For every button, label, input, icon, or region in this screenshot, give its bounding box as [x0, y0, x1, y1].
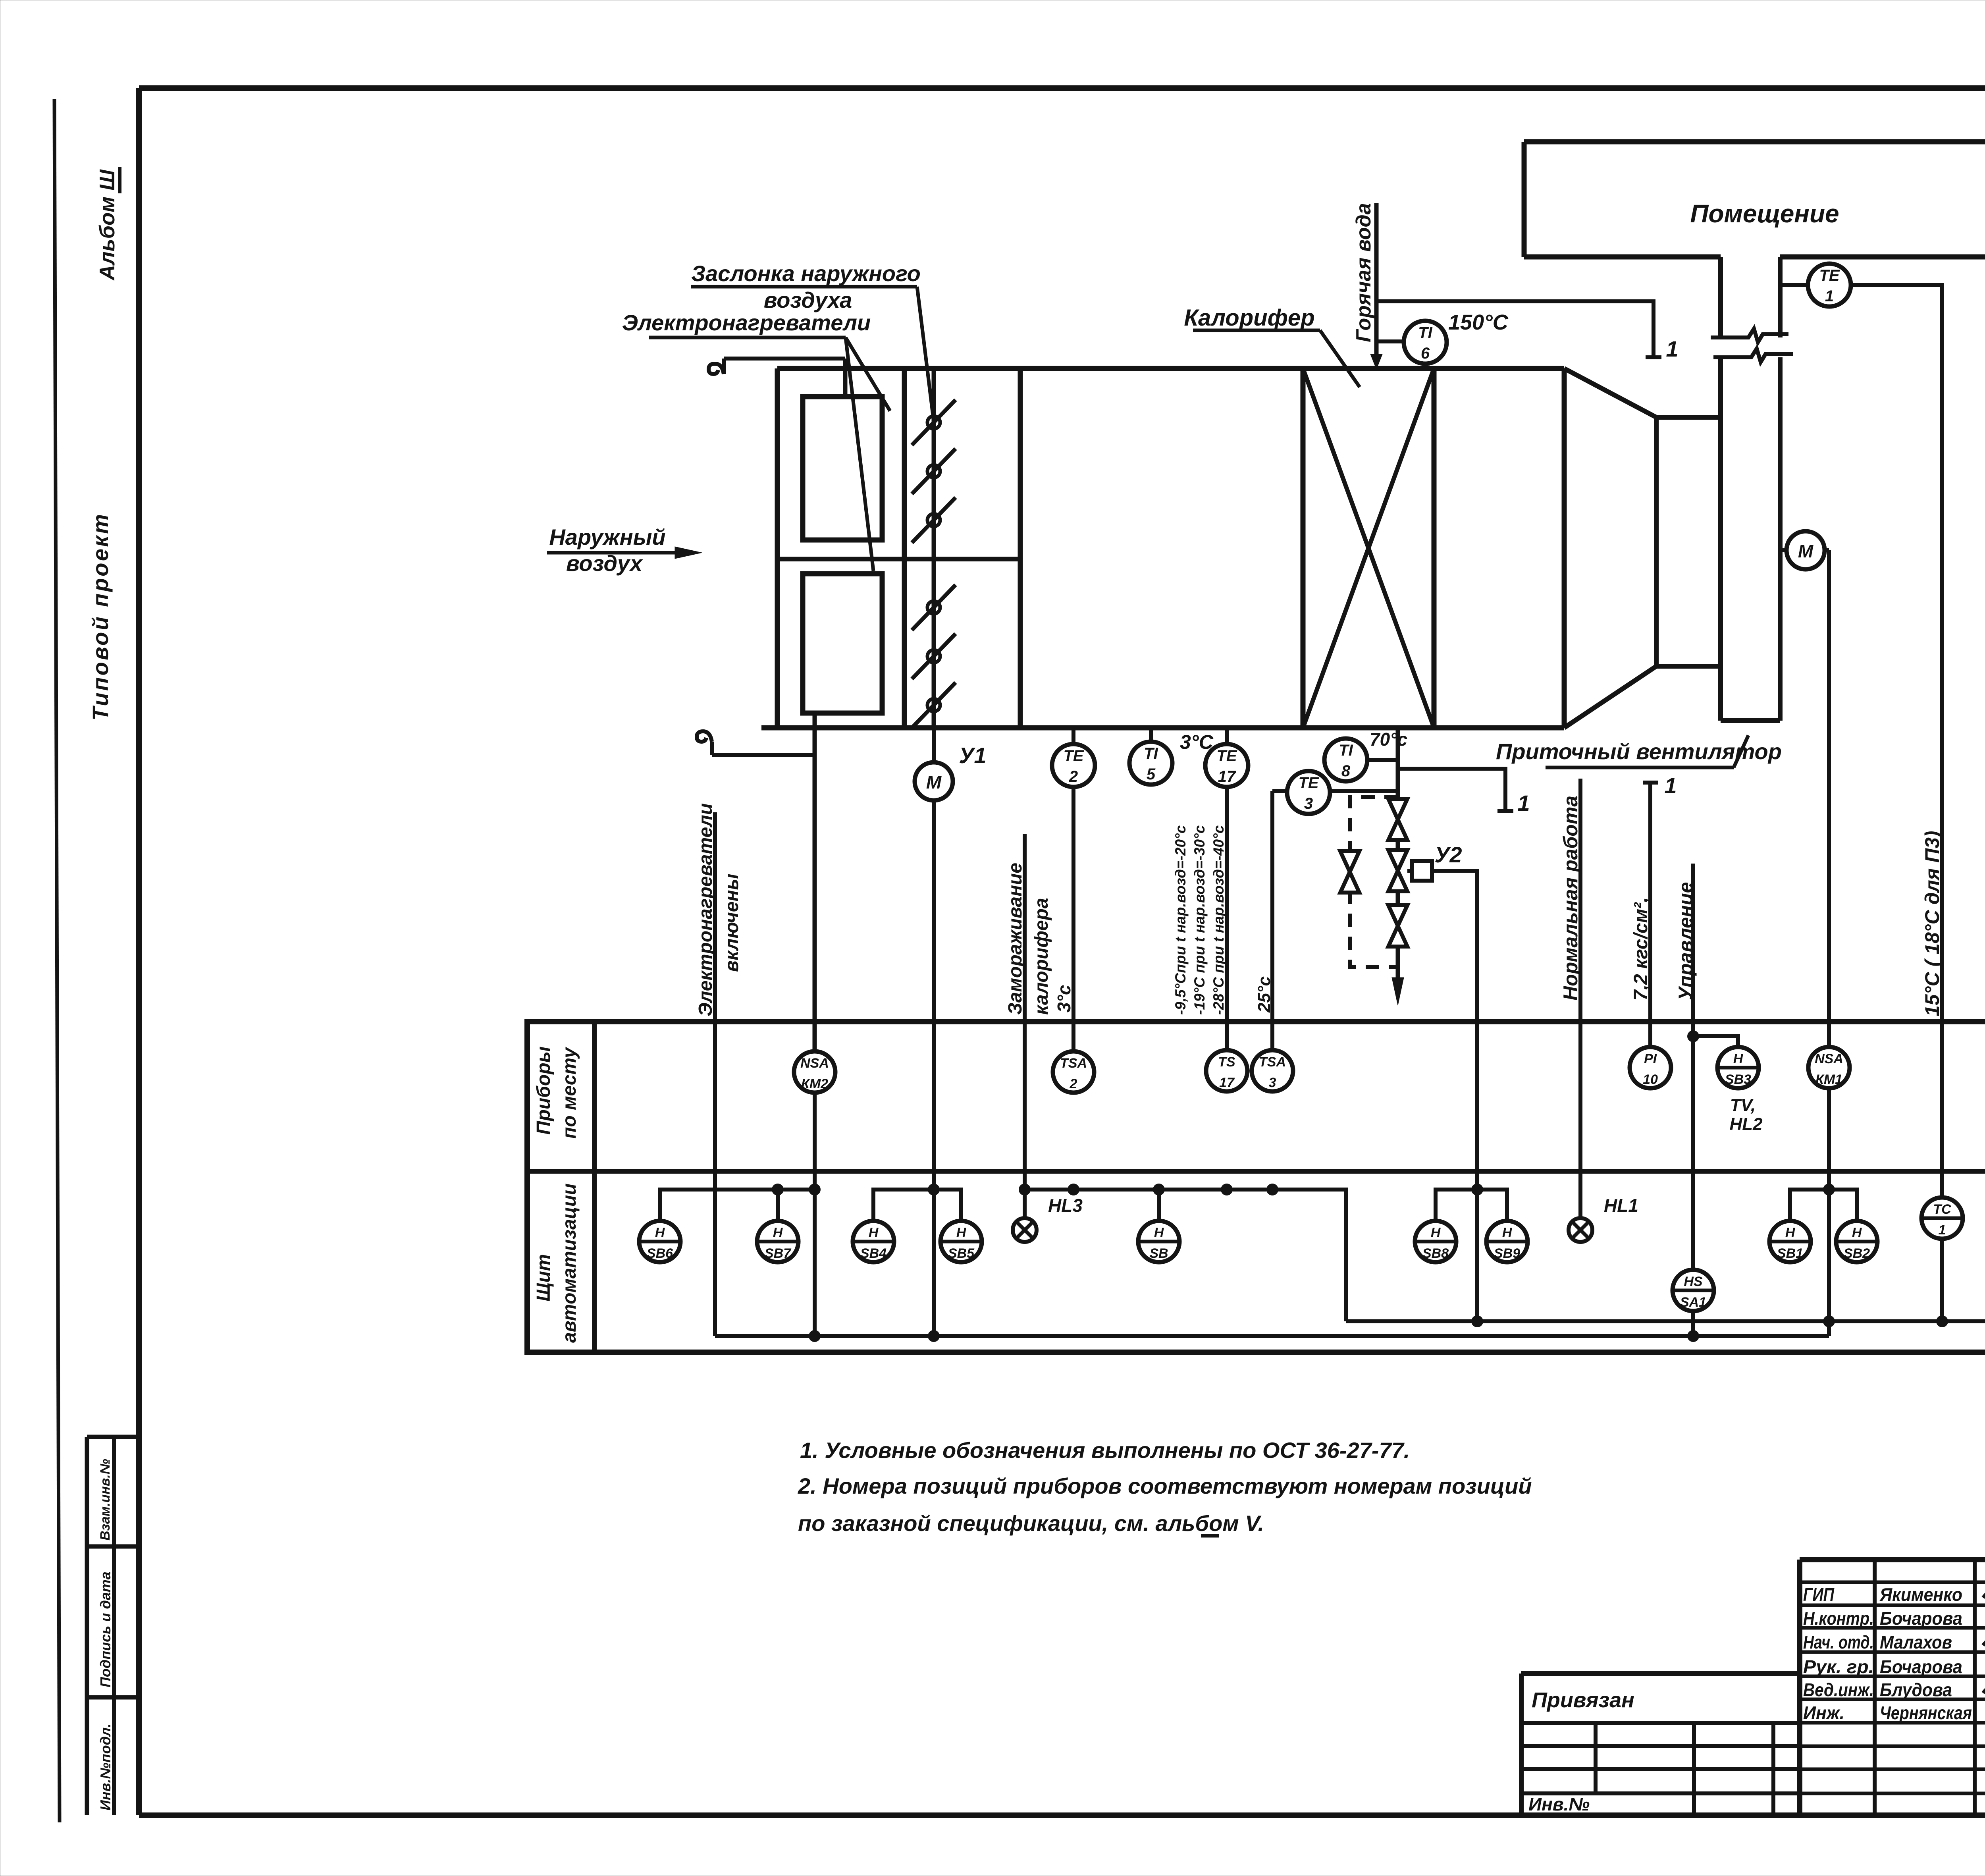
svg-text:-28°С при t нар.возд=-40°с: -28°С при t нар.возд=-40°с: [1210, 825, 1227, 1015]
instrument PI10: [1630, 1047, 1671, 1088]
bypass valve: [1340, 851, 1359, 893]
svg-text:Н: Н: [1154, 1225, 1164, 1240]
table row divider: [527, 1169, 1985, 1174]
damper blades: [912, 400, 956, 728]
margin stamp boxes: [87, 1437, 139, 1815]
instrument TI5: [1129, 728, 1172, 785]
instrument NSA KM2: [794, 1051, 835, 1093]
svg-text:У2: У2: [1434, 842, 1462, 867]
label Электронагреватели включены: [695, 803, 742, 1016]
labels temperature settings TE17: [1172, 825, 1227, 1015]
signal line control: [1691, 864, 1695, 1336]
wire TE3 left: [1272, 789, 1287, 793]
svg-text:3: 3: [1269, 1075, 1276, 1090]
fan outlet face: [1654, 417, 1659, 666]
svg-text:SВ2: SВ2: [1844, 1246, 1870, 1261]
label Замораживание калорифера: [1005, 863, 1052, 1015]
room label: [1690, 199, 1839, 228]
svg-text:включены: включены: [721, 873, 742, 972]
svg-text:Приборы: Приборы: [533, 1046, 554, 1135]
wire duct to fan motor M: [1780, 548, 1787, 552]
duct break symbol lower: [1713, 349, 1793, 362]
signal line damper motor down: [932, 800, 936, 1336]
svg-text:SВ9: SВ9: [1494, 1246, 1520, 1261]
svg-text:Наружный: Наружный: [549, 524, 665, 549]
margin label Типовой проект: [88, 514, 113, 721]
label 25C: [1255, 976, 1274, 1013]
label У1: [959, 743, 986, 768]
svg-text:Ш: Ш: [95, 169, 119, 191]
svg-text:1. Условные обозначения выпо: 1. Условные обозначения выполнены по ОСТ…: [800, 1438, 1410, 1463]
svg-text:Н: Н: [1431, 1225, 1441, 1240]
svg-text:У1: У1: [959, 743, 986, 768]
fan cone top: [1564, 368, 1656, 417]
svg-text:Н: Н: [1852, 1225, 1862, 1240]
wire SB4-SB5: [873, 1184, 961, 1221]
button H SВ4: [853, 1221, 894, 1262]
svg-text:Н: Н: [1502, 1225, 1513, 1240]
heater section right wall: [1432, 368, 1437, 728]
signal line TE1 lower part: [1940, 1239, 1944, 1321]
pipe outlet arrow: [1392, 978, 1404, 1005]
instrument NSA KM1: [1808, 1047, 1850, 1088]
title block signature grid: [1800, 1560, 1985, 1815]
switch HS SA1: [1673, 1270, 1714, 1311]
supply duct right wall: [1778, 257, 1783, 721]
signal branch to SB3: [1687, 1030, 1738, 1047]
svg-text:ТSА: ТSА: [1259, 1055, 1286, 1070]
svg-text:SВ6: SВ6: [647, 1246, 673, 1261]
button H SВ5: [940, 1221, 982, 1262]
damper section mid divider: [777, 557, 1020, 561]
svg-text:TV,: TV,: [1730, 1095, 1756, 1115]
button H SВ9: [1486, 1221, 1528, 1262]
lamp HL1: [1569, 1195, 1638, 1242]
margin label Альбом III: [95, 167, 120, 281]
svg-text:Н: Н: [1733, 1051, 1744, 1066]
signal line return to note1: [1398, 769, 1513, 811]
svg-text:по месту: по месту: [559, 1047, 580, 1139]
svg-text:М: М: [926, 772, 942, 792]
signal line TE1 to TC1: [1850, 285, 1942, 1197]
svg-text:Н: Н: [655, 1225, 665, 1240]
svg-text:ТЕ: ТЕ: [1216, 747, 1237, 765]
svg-text:Электронагреватели: Электронагреватели: [695, 803, 716, 1016]
flexible connector bracket top left: [709, 359, 845, 374]
lamp HL3: [1013, 1195, 1083, 1242]
svg-text:Н.контр.: Н.контр.: [1803, 1608, 1874, 1629]
table label Щит автоматизации: [533, 1184, 580, 1343]
label У2: [1434, 842, 1462, 867]
controller TC1: [1921, 1197, 1963, 1239]
pipe hot water: [1370, 203, 1382, 369]
note line 3: [798, 1511, 1264, 1536]
label 15C dlya P3: [1921, 831, 1943, 1016]
instrument TE17: [1205, 728, 1248, 787]
svg-text:Бочарова: Бочарова: [1880, 1608, 1962, 1629]
svg-text:Помещение: Помещение: [1690, 199, 1839, 228]
heater cross X: [1303, 368, 1434, 728]
svg-text:КМ2: КМ2: [801, 1076, 828, 1091]
fan cone bottom: [1564, 666, 1656, 728]
svg-text:SВ4: SВ4: [860, 1246, 887, 1261]
wire SB6-SB7-KM2: [660, 1184, 821, 1221]
instrument TS17: [1206, 1050, 1247, 1091]
svg-text:Н: Н: [1785, 1225, 1796, 1240]
svg-text:SВ7: SВ7: [765, 1246, 792, 1261]
label Приточный вентилятор: [1496, 735, 1782, 767]
sheet binding edge line: [54, 99, 60, 1822]
table label Приборы по месту: [533, 1046, 580, 1139]
svg-text:по заказной спецификации, см.: по заказной спецификации, см. альбом V.: [798, 1511, 1264, 1536]
svg-text:HL1: HL1: [1604, 1195, 1638, 1216]
svg-text:Блудова: Блудова: [1880, 1679, 1952, 1700]
note ref 1 pressure: [1664, 773, 1677, 798]
svg-text:Бочарова: Бочарова: [1880, 1656, 1962, 1677]
label 70C: [1370, 729, 1407, 750]
svg-text:1: 1: [1517, 791, 1530, 816]
label Электронагреватели: [622, 310, 890, 571]
instrument TSA2: [1053, 1051, 1094, 1093]
pipe label Горячая вода: [1352, 203, 1375, 342]
svg-text:Альбом: Альбом: [95, 197, 119, 281]
svg-text:ТЕ: ТЕ: [1063, 747, 1084, 765]
actuator motor M damper У1: [915, 728, 953, 800]
svg-text:1: 1: [1666, 336, 1678, 361]
margin box label Взам.инв.№: [98, 1459, 113, 1541]
svg-text:70°c: 70°c: [1370, 729, 1407, 750]
wire SB1-SB2: [1790, 1184, 1857, 1221]
svg-text:ТЕ: ТЕ: [1298, 774, 1319, 792]
signal line TE3 to TSA3: [1270, 791, 1274, 1050]
svg-text:10: 10: [1643, 1072, 1658, 1087]
signal line KM2 lower part: [813, 1093, 817, 1336]
wire pipe to TI6: [1376, 339, 1404, 343]
svg-text:Подпись и дата: Подпись и дата: [97, 1571, 114, 1687]
label Инв.No: [1528, 1794, 1590, 1814]
instrument H SB3: [1717, 1047, 1759, 1088]
signal line pressure PI10: [1643, 783, 1658, 1047]
button H SВ8: [1415, 1221, 1456, 1262]
instrument TI6: [1404, 321, 1447, 364]
svg-text:Н: Н: [773, 1225, 783, 1240]
svg-text:1: 1: [1664, 773, 1677, 798]
signal line normal-run HL1: [1578, 779, 1582, 1218]
note ref 1 return: [1517, 791, 1530, 816]
table label column divider: [592, 1022, 597, 1352]
label Управление: [1675, 882, 1697, 1001]
svg-text:Малахов: Малахов: [1880, 1632, 1952, 1652]
svg-text:Вед.инж.: Вед.инж.: [1803, 1679, 1874, 1700]
valve V3: [1388, 905, 1407, 947]
svg-text:SВ3: SВ3: [1725, 1072, 1751, 1087]
wire SB8-SB9: [1436, 1184, 1507, 1221]
svg-text:М: М: [1798, 541, 1814, 561]
valve V1: [1388, 799, 1407, 840]
actuator U2 box: [1407, 861, 1432, 881]
wire bus2: [715, 1330, 1829, 1342]
label Привязан: [1532, 1688, 1634, 1712]
svg-text:ТSА: ТSА: [1060, 1056, 1087, 1071]
svg-text:SВ: SВ: [1149, 1246, 1168, 1261]
svg-text:SВ8: SВ8: [1422, 1246, 1449, 1261]
signal line TE17 to TS17: [1225, 787, 1229, 1050]
svg-text:НS: НS: [1684, 1274, 1703, 1289]
svg-text:PI: PI: [1644, 1051, 1657, 1066]
AHU casing left wall: [775, 368, 780, 728]
AHU right wall fan inlet: [1562, 368, 1567, 728]
damper section right wall: [902, 368, 907, 728]
svg-text:TI: TI: [1339, 742, 1353, 759]
AHU casing bottom: [761, 725, 1564, 731]
svg-text:Нач. отд.: Нач. отд.: [1803, 1632, 1874, 1652]
note line 2: [798, 1473, 1532, 1498]
svg-text:1: 1: [1825, 287, 1834, 305]
svg-text:Якименко: Якименко: [1879, 1584, 1962, 1605]
signal line U2: [1432, 871, 1477, 1321]
motor M fan: [1786, 531, 1825, 569]
svg-text:автоматизации: автоматизации: [559, 1184, 580, 1343]
label Наружный воздух: [547, 524, 702, 576]
svg-text:25°с: 25°с: [1255, 976, 1274, 1013]
margin box label Подпись и дата: [97, 1571, 114, 1687]
signal line heaters-on: [713, 812, 717, 1336]
svg-text:Заслонка наружного: Заслонка наружного: [691, 261, 921, 286]
title block signatures: [1983, 1527, 1985, 1719]
pipe heater return: [1396, 728, 1400, 980]
wire TE3 right to pipe: [1330, 789, 1398, 793]
svg-text:17: 17: [1219, 1075, 1235, 1090]
svg-text:Инв.№: Инв.№: [1528, 1794, 1590, 1814]
outside-air damper blade axis: [932, 368, 936, 728]
duct break symbol upper: [1711, 329, 1788, 342]
svg-text:ТС: ТС: [1933, 1202, 1951, 1217]
svg-text:Взам.инв.№: Взам.инв.№: [98, 1459, 113, 1541]
svg-text:-19°С при t нар.возд=-30°с: -19°С при t нар.возд=-30°с: [1191, 825, 1208, 1015]
svg-text:SВ5: SВ5: [948, 1246, 975, 1261]
signal line hot water to note1: [1376, 301, 1661, 357]
svg-text:5: 5: [1147, 765, 1156, 783]
button H SВ1: [1769, 1221, 1811, 1262]
button H SВ6: [639, 1221, 680, 1262]
heater section left wall: [1301, 368, 1306, 728]
svg-text:HL3: HL3: [1048, 1195, 1083, 1216]
svg-text:воздуха: воздуха: [764, 287, 852, 312]
privyazan box: [1521, 1674, 1800, 1815]
svg-text:Привязан: Привязан: [1532, 1688, 1634, 1712]
svg-text:2: 2: [1069, 768, 1078, 785]
svg-text:Н: Н: [869, 1225, 879, 1240]
wire heater bottom feed to KM2: [813, 713, 817, 1051]
svg-text:17: 17: [1218, 768, 1236, 785]
wire heater top feed: [843, 359, 848, 397]
instrument TI8: [1324, 738, 1367, 781]
svg-text:Инж.: Инж.: [1803, 1702, 1844, 1723]
svg-text:КМ1: КМ1: [1815, 1072, 1842, 1087]
svg-text:Инв.№подл.: Инв.№подл.: [97, 1724, 114, 1810]
label 7,2 kgf: [1630, 897, 1652, 1001]
label Заслонка наружного воздуха: [691, 261, 934, 422]
svg-text:Горячая вода: Горячая вода: [1352, 203, 1375, 342]
bypass pipe dashed: [1350, 797, 1398, 967]
note ref 1 hot water: [1666, 336, 1678, 361]
label 3C top: [1180, 731, 1214, 753]
svg-text:3: 3: [1304, 795, 1313, 812]
label 3C table: [1054, 985, 1074, 1012]
button H SВ2: [1836, 1221, 1877, 1262]
svg-text:2: 2: [1070, 1076, 1077, 1091]
svg-text:NSA: NSA: [800, 1056, 829, 1071]
signal line fan motor down: [1824, 550, 1829, 1047]
svg-text:1: 1: [1939, 1222, 1946, 1238]
AHU casing top: [777, 366, 1564, 371]
svg-text:TI: TI: [1418, 324, 1432, 341]
svg-text:Рук. гр.: Рук. гр.: [1803, 1656, 1874, 1677]
signal line freeze HL3: [1023, 834, 1027, 1218]
svg-text:калорифера: калорифера: [1031, 898, 1052, 1015]
instrument TE1: [1808, 264, 1851, 307]
wire bus1: [1346, 1315, 1985, 1327]
svg-text:Щит: Щит: [533, 1254, 554, 1301]
svg-text:3°С: 3°С: [1180, 731, 1214, 753]
label TV HL2: [1729, 1095, 1763, 1134]
svg-text:SВ1: SВ1: [1777, 1246, 1803, 1261]
label 150C: [1448, 310, 1509, 334]
instrument TE3: [1287, 771, 1330, 814]
svg-text:Н: Н: [956, 1225, 967, 1240]
button H SВ: [1138, 1221, 1179, 1262]
svg-text:Электронагреватели: Электронагреватели: [622, 310, 871, 335]
electric heater block lower: [803, 574, 882, 713]
note line 1: [800, 1438, 1410, 1463]
valve V2 controlled: [1388, 850, 1407, 891]
margin box label Инв.№ подл.: [97, 1724, 114, 1810]
label Нормальная работа: [1559, 796, 1582, 1001]
svg-text:Чернянская: Чернянская: [1880, 1702, 1972, 1723]
svg-text:6: 6: [1421, 345, 1430, 362]
label Калорифер: [1184, 305, 1360, 387]
wire TI8 to pipe: [1367, 758, 1398, 762]
svg-text:SА1: SА1: [1680, 1295, 1706, 1310]
title block signature names: [1803, 1584, 1972, 1723]
instrument TSA3: [1252, 1050, 1293, 1091]
supply duct left wall: [1718, 257, 1723, 721]
svg-text:Типовой проект: Типовой проект: [88, 514, 113, 721]
instrument TE2: [1052, 728, 1095, 787]
svg-text:ТЕ: ТЕ: [1819, 267, 1840, 284]
svg-text:NSA: NSA: [1815, 1051, 1843, 1066]
signal line TE2 to TSA2: [1072, 787, 1075, 1051]
supply duct bottom cap: [1721, 718, 1780, 723]
svg-text:HL2: HL2: [1729, 1114, 1763, 1134]
svg-text:8: 8: [1341, 762, 1351, 780]
electric heater block upper: [803, 397, 882, 540]
fan outlet flange bottom: [1656, 664, 1721, 669]
wire duct to TE1: [1780, 283, 1809, 287]
fan outlet flange top: [1656, 415, 1721, 420]
svg-text:3°с: 3°с: [1054, 985, 1074, 1012]
svg-text:150°C: 150°C: [1448, 310, 1509, 334]
table frame: [527, 1022, 1985, 1352]
svg-text:15°С ( 18°С для П3): 15°С ( 18°С для П3): [1921, 831, 1943, 1016]
signal line fan motor lower part: [1827, 1088, 1831, 1336]
svg-text:2. Номера позиций приборов: 2. Номера позиций приборов соответствуют…: [798, 1473, 1532, 1498]
svg-text:Калорифер: Калорифер: [1184, 305, 1314, 331]
room box Помещение: [1524, 142, 1985, 257]
button H SВ7: [757, 1221, 798, 1262]
mixing section divider wall: [1018, 368, 1023, 728]
wire HL3 group: [1019, 1184, 1346, 1321]
svg-text:Нормальная работа: Нормальная работа: [1559, 796, 1582, 1001]
svg-text:-9,5°Спри t нар.возд=-20°с: -9,5°Спри t нар.возд=-20°с: [1172, 825, 1189, 1015]
flexible connector bracket bottom left: [697, 731, 815, 755]
svg-text:ТS: ТS: [1218, 1055, 1235, 1070]
svg-text:ГИП: ГИП: [1803, 1584, 1835, 1605]
svg-text:TI: TI: [1144, 745, 1158, 762]
